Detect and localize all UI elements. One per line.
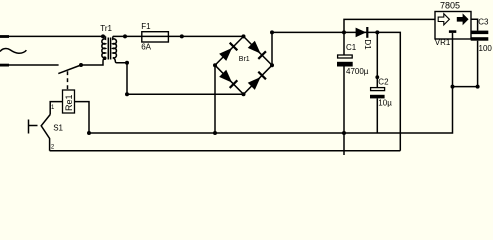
node primary top pin xyxy=(101,34,105,38)
regulator VR1 box xyxy=(435,12,471,40)
relay contact blade (open) xyxy=(58,65,81,74)
wire DC rail to down-feed xyxy=(272,32,400,150)
transformer core xyxy=(108,38,110,60)
svg-text:F1: F1 xyxy=(141,22,151,31)
wire bottom rail from S1 to DC feed xyxy=(50,150,401,152)
transformer Tr1 secondary winding xyxy=(113,36,117,57)
transformer Tr1 primary winding xyxy=(102,36,106,57)
node C1 ground junction xyxy=(342,131,346,135)
Br1 diode lower-right xyxy=(247,71,266,90)
node junction after fuse xyxy=(180,34,184,38)
svg-text:7805: 7805 xyxy=(440,0,460,10)
wire secondary bottom to corner xyxy=(113,58,244,95)
AC sine symbol xyxy=(0,49,26,54)
node bridge right corner xyxy=(270,63,274,67)
ground rail xyxy=(89,39,453,133)
svg-text:VR1: VR1 xyxy=(435,38,451,47)
svg-text:10µ: 10µ xyxy=(378,98,392,107)
bridge rectifier Br1 diamond xyxy=(215,36,272,94)
node bridge ground junction xyxy=(213,131,217,135)
wire relay right pin down to ground rail xyxy=(75,102,90,133)
node relay ground junction xyxy=(87,131,91,135)
wire AC bottom from terminal to relay contact xyxy=(9,64,59,66)
terminal bar bottom (AC input N) xyxy=(0,64,9,67)
node C2 pin joint xyxy=(375,75,379,79)
wire bridge right corner up to DC rail xyxy=(271,32,273,65)
svg-text:Re1: Re1 xyxy=(64,94,74,111)
wire AC top from terminal to transformer primary xyxy=(9,35,106,37)
node secondary bottom corner xyxy=(125,61,129,65)
dashed mechanical link contact to relay coil xyxy=(67,71,69,90)
switch S1 fixed contact xyxy=(28,120,30,134)
wire relay left pin to S1 xyxy=(50,102,62,115)
svg-text:D1: D1 xyxy=(363,39,372,50)
wire bridge left corner to ground rail xyxy=(214,65,216,133)
fuse F1 body xyxy=(142,32,169,42)
Br1 diode upper-left xyxy=(219,42,238,61)
node DC rail corner xyxy=(270,30,274,34)
capacitor C2 wire top xyxy=(376,32,378,87)
relay coil Re1 box xyxy=(63,90,75,113)
svg-text:C2: C2 xyxy=(378,77,389,86)
capacitor C1 wire top xyxy=(343,32,345,54)
wire C2 bottom to ground rail xyxy=(376,98,378,133)
Br1 diode lower-left xyxy=(219,69,238,88)
node C1 junction xyxy=(342,30,346,34)
node bridge bottom corner xyxy=(242,92,246,96)
VR1 internal ground symbol xyxy=(449,30,456,33)
capacitor C2 plates xyxy=(371,88,385,91)
node bridge top corner xyxy=(242,34,246,38)
switch S1 contact stub xyxy=(29,125,38,127)
node primary bottom pin xyxy=(103,56,107,60)
node C3 bottom junction xyxy=(476,85,480,89)
svg-text:100: 100 xyxy=(479,44,493,53)
switch S1 blade xyxy=(41,115,50,151)
node secondary top pin xyxy=(123,34,127,38)
node after D1 xyxy=(375,30,379,34)
wire bypass rail to VR1 input xyxy=(344,19,435,32)
capacitor C1 plates xyxy=(338,55,353,58)
svg-text:Br1: Br1 xyxy=(239,56,250,63)
VR1 output arrow (filled) xyxy=(457,13,469,25)
wire contact pivot to primary bottom xyxy=(81,58,106,65)
svg-text:C1: C1 xyxy=(346,43,357,52)
wire secondary top through fuse to bridge xyxy=(113,35,244,37)
Br1 diode upper-right xyxy=(247,40,266,59)
terminal bar top (AC input L) xyxy=(0,35,9,38)
capacitor C3 plates xyxy=(471,31,489,34)
VR1 input arrow (outline) xyxy=(438,14,449,25)
node C3 ground tee on regulator ground line xyxy=(451,85,455,89)
node relay contact pivot xyxy=(79,63,83,67)
svg-text:Tr1: Tr1 xyxy=(100,24,112,33)
node bridge left corner xyxy=(213,63,217,67)
wire VR1 output to C3 xyxy=(471,19,478,30)
svg-text:C3: C3 xyxy=(478,17,489,26)
wire C1 bottom through rails to edge xyxy=(343,67,345,156)
diode D1 xyxy=(356,28,367,38)
node corner at bottom of secondary drop xyxy=(125,92,129,96)
svg-text:4700µ: 4700µ xyxy=(346,67,369,76)
wire C3 bottom to ground tee xyxy=(453,41,478,87)
svg-text:6A: 6A xyxy=(141,43,151,52)
svg-text:S1: S1 xyxy=(53,124,63,133)
